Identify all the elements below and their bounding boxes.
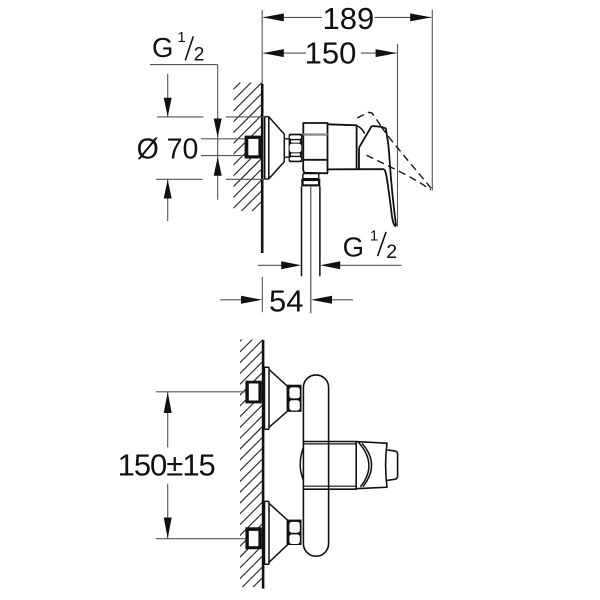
G1/2 nipple extension lines — [201, 139, 245, 156]
hex union nut (top view) — [289, 134, 303, 163]
dome cap arc — [357, 126, 365, 134]
dimension 189 arrows — [263, 13, 431, 21]
chrome highlight band — [303, 133, 327, 135]
wall hatching (top view) — [230, 42, 270, 255]
cartridge housing block — [303, 442, 356, 490]
supply square fitting lower (bottom view) — [245, 527, 261, 549]
svg-text:1: 1 — [177, 29, 185, 46]
outlet pipe — [302, 186, 320, 276]
wall face line (top view) — [261, 10, 263, 84]
dimension 150 line — [264, 52, 397, 54]
lever handle (solid, down position) — [359, 126, 396, 226]
Ø70 extension lines (escutcheon edges) — [156, 117, 265, 179]
svg-text:54: 54 — [269, 284, 303, 319]
dimension 150±15 arrows — [164, 392, 172, 539]
svg-text:2: 2 — [386, 241, 397, 263]
svg-text:2: 2 — [194, 43, 205, 65]
wall hatching (bottom view) — [236, 313, 268, 600]
supply square fitting upper (bottom view) — [245, 381, 261, 404]
dimension 150±15 line — [167, 392, 169, 539]
thread stub between escutcheon and nut — [284, 139, 289, 157]
pipe centerline — [310, 186, 312, 313]
label G 1/2 (top left) — [152, 29, 204, 66]
hex nut upper (bottom view) — [287, 385, 301, 412]
hex nut lower (bottom view) — [287, 520, 301, 545]
dimension 150±15 extension lines — [156, 392, 246, 539]
leader stem with arrows for G 1/2 — [217, 65, 219, 200]
escutcheon (top view) — [265, 117, 285, 179]
svg-text:189: 189 — [323, 1, 375, 36]
escutcheon lower (bottom view) — [265, 501, 288, 564]
escutcheon upper (bottom view) — [265, 367, 288, 429]
svg-text:150: 150 — [305, 36, 357, 71]
outlet elbow below body — [303, 160, 328, 174]
faucet body capsule (bottom view) — [303, 375, 328, 556]
extension line right of 150 — [397, 44, 399, 227]
dimension 54 line and arrows — [220, 299, 353, 301]
dimension Ø70 stems and arrows — [167, 74, 169, 221]
body cartridge section (top view) — [328, 124, 385, 169]
supply square fitting in wall (top view) — [245, 136, 262, 159]
faucet body inlet section (top view) — [303, 123, 327, 160]
shower hose nut — [301, 179, 320, 187]
svg-text:1: 1 — [370, 228, 378, 245]
extension line right of 189 — [431, 10, 433, 191]
G 1/2 outlet leader arrows — [258, 264, 402, 266]
lever handle (dashed, raised position) — [357, 112, 432, 190]
label G 1/2 (outlet) — [343, 228, 397, 263]
svg-text:G: G — [343, 232, 364, 263]
extension line wall face for 54 — [261, 277, 263, 312]
dimension 189 line — [264, 16, 432, 18]
cartridge dome bulge on capsule — [300, 447, 303, 480]
svg-text:G: G — [152, 32, 173, 63]
wall face line (bottom view) — [262, 340, 265, 589]
svg-text:150±15: 150±15 — [118, 447, 215, 482]
shower outlet collar — [303, 174, 319, 179]
svg-text:Ø 70: Ø 70 — [137, 133, 199, 165]
leader underline of G 1/2 — [150, 64, 218, 66]
handle cylinder (bottom view) — [356, 442, 397, 489]
dimension 150 arrows — [263, 49, 397, 57]
handle end-cap arcs — [359, 442, 372, 487]
